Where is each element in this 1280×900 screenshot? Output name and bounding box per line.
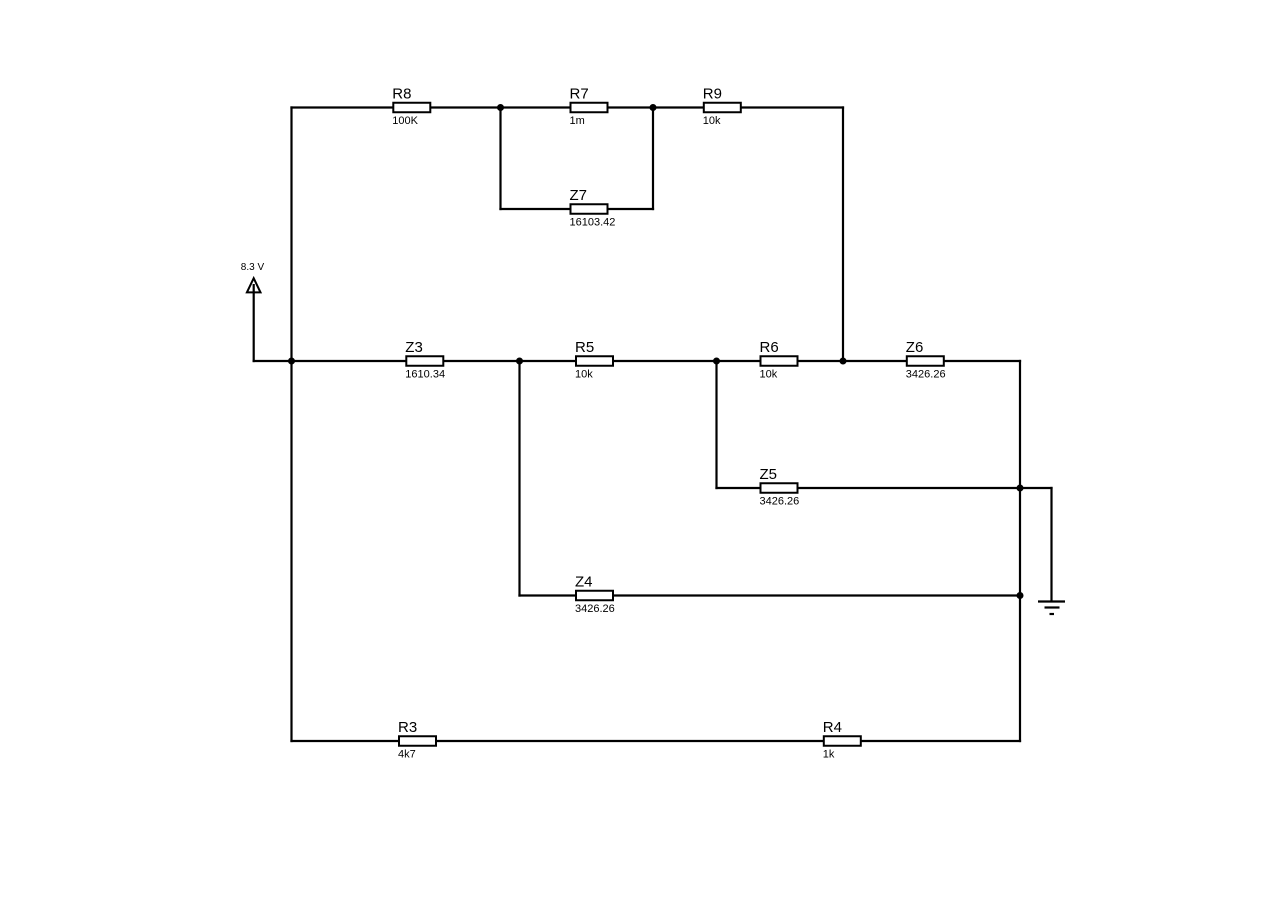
wire vertical: left rail top row to node C <box>290 106 292 361</box>
value 10k (R9) <box>703 115 721 127</box>
label R8 <box>392 86 411 103</box>
wire Z5 row: left corner to Z5 <box>715 487 761 489</box>
wire mid row: Z6 to right corner <box>943 360 1021 362</box>
resistor R6 <box>761 356 798 366</box>
wire Z4 row: left corner to Z4 <box>518 594 576 596</box>
wire mid row: node F to R6 <box>717 360 762 362</box>
resistor R5 <box>576 356 613 366</box>
label Z5 <box>760 466 778 483</box>
wire power supply corner to node C <box>253 360 292 362</box>
resistor R9 <box>704 103 741 113</box>
node D junction dot <box>840 358 847 365</box>
value 3426.26 (Z5) <box>760 496 800 508</box>
svg-text:10k: 10k <box>760 369 778 381</box>
svg-text:100K: 100K <box>392 115 418 127</box>
wire bottom row: R3 to R4 <box>435 740 824 742</box>
label R9 <box>703 86 722 103</box>
label Z6 <box>906 339 924 356</box>
resistor Z7 <box>571 204 608 214</box>
ground symbol <box>1038 602 1065 615</box>
node F junction dot <box>713 358 720 365</box>
value 16103.42 <box>570 217 616 229</box>
svg-text:10k: 10k <box>575 369 593 381</box>
svg-text:Z3: Z3 <box>405 339 423 356</box>
svg-text:1k: 1k <box>823 749 835 761</box>
wire top row: node A to R7 <box>501 106 572 108</box>
wire Z4 row: Z4 to node H <box>612 594 1020 596</box>
svg-text:Z7: Z7 <box>570 187 588 204</box>
svg-text:4k7: 4k7 <box>398 749 416 761</box>
svg-text:16103.42: 16103.42 <box>570 217 616 229</box>
label Z7 <box>570 187 588 204</box>
wire Z5 row: Z5 to node G <box>797 487 1020 489</box>
svg-text:10k: 10k <box>703 115 721 127</box>
resistor R4 <box>824 736 861 746</box>
wire top row: R8 to node A <box>430 106 501 108</box>
value 1k <box>823 749 835 761</box>
label R5 <box>575 339 594 356</box>
label Z3 <box>405 339 423 356</box>
value 10k (R6) <box>760 369 778 381</box>
node C junction dot <box>288 358 295 365</box>
wire Z7 row: right <box>607 208 654 210</box>
node E junction dot <box>516 358 523 365</box>
svg-text:R4: R4 <box>823 719 842 736</box>
wire vertical: ground branch down <box>1050 487 1052 602</box>
resistor Z4 <box>576 591 613 601</box>
label R7 <box>570 86 589 103</box>
resistor R3 <box>399 736 436 746</box>
svg-text:R6: R6 <box>760 339 779 356</box>
resistor Z5 <box>761 483 798 493</box>
resistor Z6 <box>907 356 944 366</box>
wire vertical: left rail node C down to bottom row <box>290 361 292 742</box>
svg-text:Z5: Z5 <box>760 466 778 483</box>
wire vertical: node B down to Z7 row <box>652 108 654 211</box>
svg-text:R5: R5 <box>575 339 594 356</box>
value 10k (R5) <box>575 369 593 381</box>
node A junction dot <box>497 104 504 111</box>
resistor Z3 <box>406 356 443 366</box>
wire Z5 row: node G to ground branch corner <box>1020 487 1053 489</box>
value 1610.34 <box>405 369 445 381</box>
value 4k7 <box>398 749 416 761</box>
value 3426.26 (Z4) <box>575 603 615 615</box>
wire mid row: node D to Z6 <box>843 360 908 362</box>
node B junction dot <box>650 104 657 111</box>
svg-text:R7: R7 <box>570 86 589 103</box>
node G junction dot <box>1017 485 1024 492</box>
label R3 <box>398 719 417 736</box>
wire vertical: node E down to Z4 row <box>518 361 520 597</box>
wire Z7 row: left <box>499 208 571 210</box>
value 100K <box>392 115 418 127</box>
svg-text:3426.26: 3426.26 <box>760 496 800 508</box>
node H junction dot <box>1017 592 1024 599</box>
svg-text:R8: R8 <box>392 86 411 103</box>
svg-text:1m: 1m <box>570 115 585 127</box>
wire top row: R9 to right corner <box>740 106 844 108</box>
wire top row: left corner to R8 <box>290 106 394 108</box>
wire top row: R7 to node B <box>607 106 653 108</box>
wire mid row: R6 to node D <box>797 360 843 362</box>
svg-text:Z6: Z6 <box>906 339 924 356</box>
resistor R7 <box>571 103 608 113</box>
value 1m <box>570 115 585 127</box>
label Z4 <box>575 574 593 591</box>
svg-text:R3: R3 <box>398 719 417 736</box>
svg-text:8.3 V: 8.3 V <box>241 262 265 273</box>
wire vertical: top right corner down to node D <box>842 106 844 361</box>
label 8.3 V <box>241 262 265 273</box>
value 3426.26 (Z6) <box>906 369 946 381</box>
power supply 8.3 V arrow symbol <box>247 278 261 292</box>
label R4 <box>823 719 842 736</box>
wire mid row: node C to Z3 <box>292 360 408 362</box>
svg-text:1610.34: 1610.34 <box>405 369 445 381</box>
svg-text:3426.26: 3426.26 <box>906 369 946 381</box>
wire bottom row: R4 to right corner <box>860 740 1021 742</box>
wire vertical: node F down to Z5 row <box>715 361 717 489</box>
wire bottom row: left corner to R3 <box>290 740 399 742</box>
wire mid row: Z3 to node E <box>443 360 520 362</box>
wire power supply lead down to mid row <box>253 284 255 362</box>
wire mid row: R5 to node F <box>612 360 716 362</box>
wire vertical right rail: Z6 corner down to bottom row <box>1019 360 1021 742</box>
svg-text:3426.26: 3426.26 <box>575 603 615 615</box>
wire mid row: node E to R5 <box>520 360 577 362</box>
svg-text:Z4: Z4 <box>575 574 593 591</box>
resistor R8 <box>393 103 430 113</box>
svg-text:R9: R9 <box>703 86 722 103</box>
wire top row: node B to R9 <box>653 106 705 108</box>
wire vertical: node A down to Z7 row <box>499 108 501 211</box>
label R6 <box>760 339 779 356</box>
